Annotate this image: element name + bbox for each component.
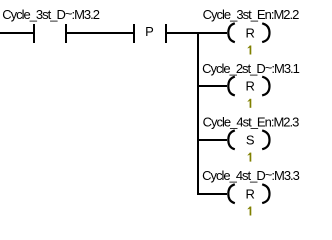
svg-text:R: R xyxy=(246,25,255,40)
svg-text:Cycle_4st_En:M2.3: Cycle_4st_En:M2.3 xyxy=(203,115,299,130)
svg-text:Cycle_3st_En:M2.2: Cycle_3st_En:M2.2 xyxy=(203,7,299,22)
svg-text:Cycle_2st_D~:M3.1: Cycle_2st_D~:M3.1 xyxy=(202,60,300,76)
svg-text:R: R xyxy=(246,79,255,94)
svg-text:P: P xyxy=(145,24,154,39)
svg-text:R: R xyxy=(246,186,255,201)
svg-text:Cycle_3st_D~:M3.2: Cycle_3st_D~:M3.2 xyxy=(2,6,100,22)
svg-text:S: S xyxy=(246,132,255,147)
svg-text:Cycle_4st_D~:M3.3: Cycle_4st_D~:M3.3 xyxy=(202,167,300,183)
